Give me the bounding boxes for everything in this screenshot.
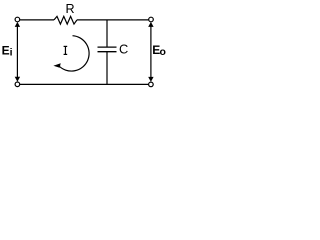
svg-text:R: R — [66, 2, 75, 16]
label I — [64, 46, 68, 54]
label C — [119, 42, 128, 57]
svg-text:o: o — [160, 46, 166, 58]
label R — [66, 2, 75, 16]
terminal bottom-left — [15, 82, 20, 87]
voltage arrow Ei — [15, 22, 20, 82]
svg-text:i: i — [10, 47, 13, 59]
terminal top-right — [149, 17, 154, 22]
wire top-right segment — [77, 19, 149, 21]
svg-text:C: C — [119, 42, 128, 57]
terminal top-left — [15, 17, 20, 22]
wire capacitor bottom stub — [106, 52, 108, 85]
label Ei — [2, 43, 13, 58]
svg-text:E: E — [2, 43, 10, 57]
wire top-left segment — [20, 19, 54, 21]
wire capacitor top stub — [106, 20, 108, 47]
wire bottom — [20, 83, 149, 85]
terminal bottom-right — [149, 82, 154, 87]
current loop arrow I — [53, 36, 89, 71]
label Eo — [152, 43, 166, 58]
resistor R — [54, 16, 77, 24]
capacitor C — [98, 47, 117, 52]
voltage arrow Eo — [148, 22, 153, 82]
